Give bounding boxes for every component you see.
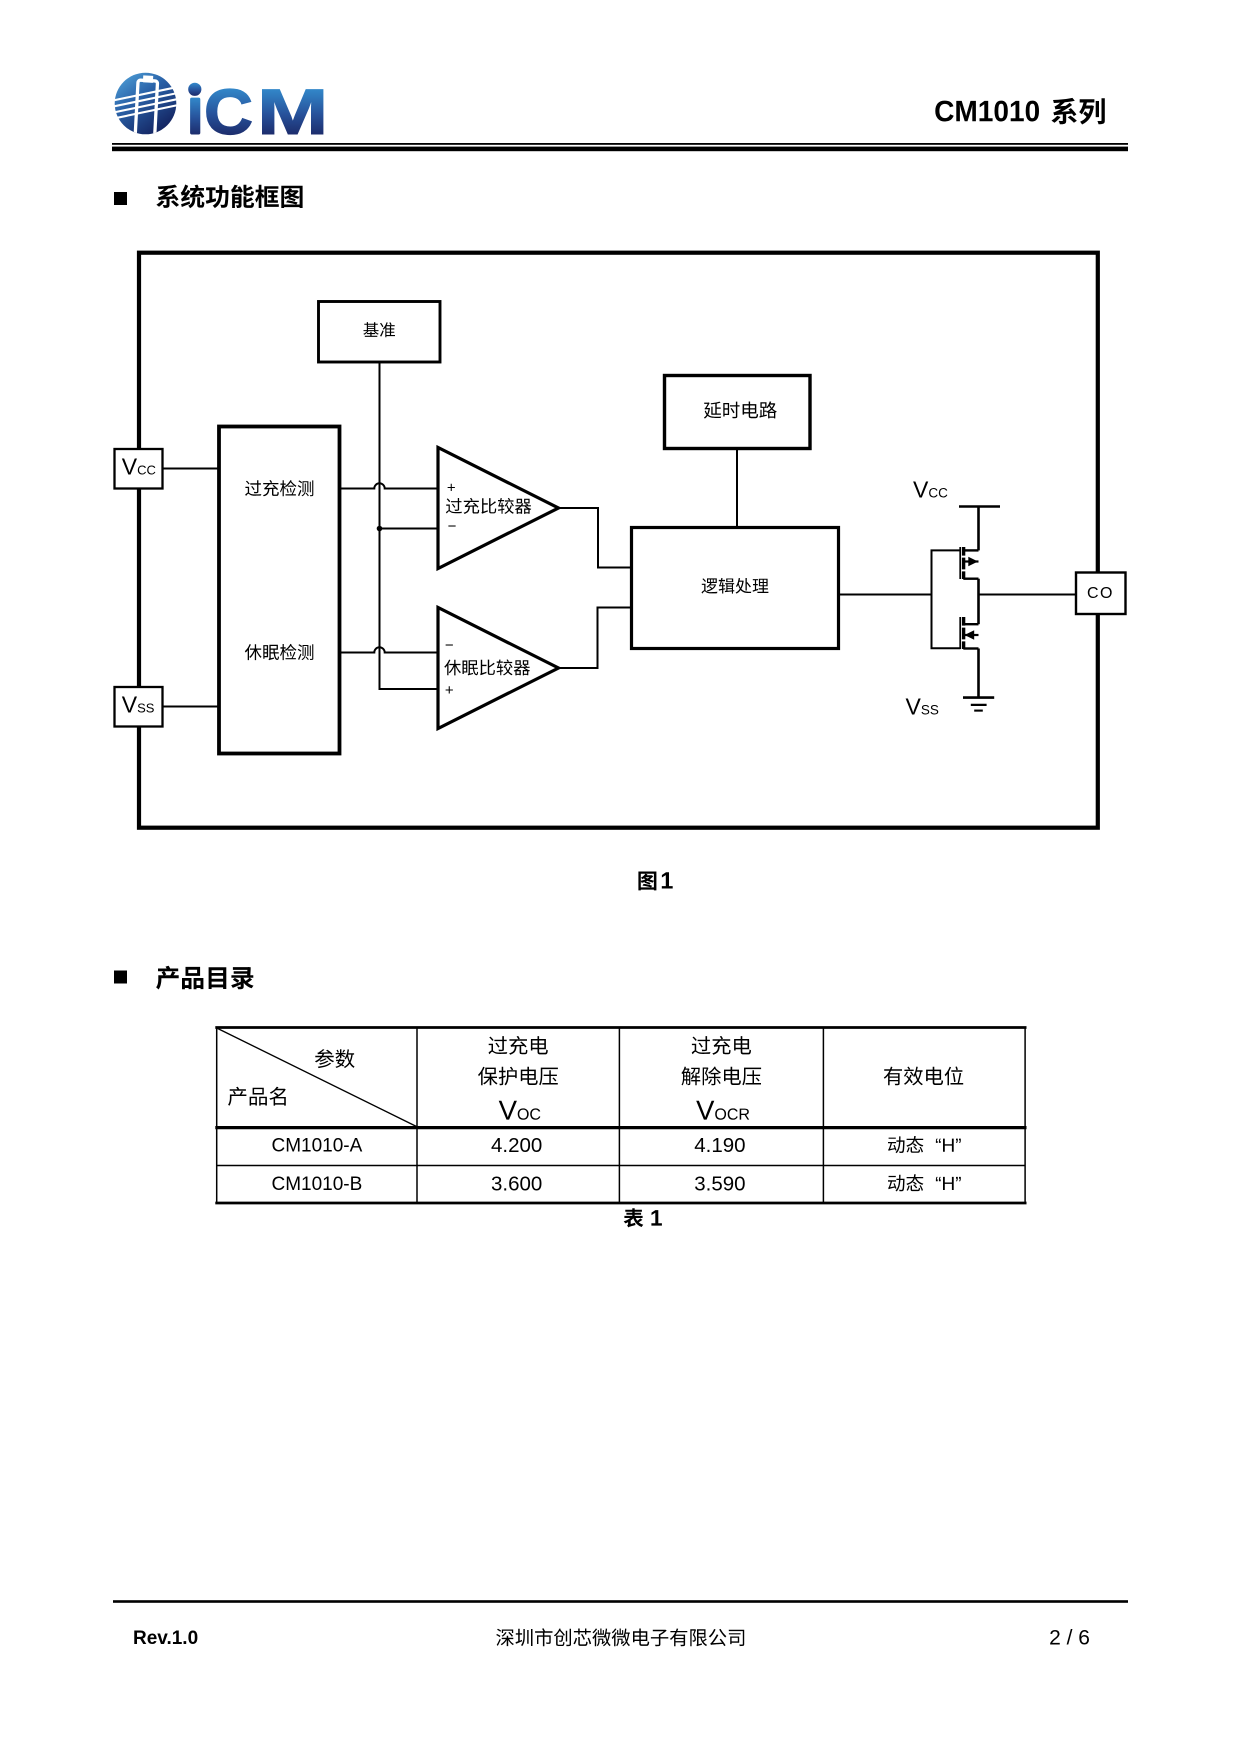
wire reference vertical net bbox=[380, 362, 439, 689]
pin box VCC bbox=[115, 449, 163, 489]
reference box 基准 bbox=[319, 302, 441, 363]
VCC rail bar bbox=[959, 505, 1000, 508]
wire detect to sleep comparator - input (hop) bbox=[340, 647, 439, 652]
wire delay circuit to logic bbox=[736, 449, 738, 528]
table data rows bbox=[271, 1136, 362, 1195]
svg-text:3.590: 3.590 bbox=[694, 1172, 745, 1195]
detect block 过充检测/休眠检测 bbox=[219, 427, 340, 754]
svg-text:3.600: 3.600 bbox=[491, 1172, 542, 1195]
header col3 over-charge release voltage bbox=[692, 1036, 751, 1055]
section title system block diagram bbox=[156, 185, 302, 209]
wire logic output to gate net bbox=[839, 594, 932, 596]
junction node on reference net bbox=[377, 526, 383, 532]
wire overcharge comparator output to logic bbox=[559, 508, 632, 568]
svg-text:4.200: 4.200 bbox=[491, 1134, 542, 1157]
table caption 表 1 bbox=[624, 1208, 644, 1227]
footer rule bbox=[113, 1600, 1128, 1603]
transistor Q2 (NMOS) bbox=[960, 617, 978, 698]
logo iCM globe bbox=[114, 73, 177, 137]
logic box 逻辑处理 bbox=[632, 528, 839, 649]
svg-text:VSS: VSS bbox=[906, 694, 939, 720]
wire sleep comparator output to logic bbox=[559, 608, 632, 669]
header col2 over-charge protect voltage bbox=[489, 1036, 548, 1055]
header double rule bbox=[112, 143, 1128, 145]
svg-text:CM1010-A: CM1010-A bbox=[271, 1136, 362, 1157]
header cell labels 参数/产品名 bbox=[315, 1049, 355, 1068]
svg-text:4.190: 4.190 bbox=[694, 1134, 745, 1157]
gate net wires bbox=[932, 550, 961, 648]
pin box CO bbox=[1076, 573, 1126, 615]
figure caption 图 1 bbox=[638, 872, 656, 891]
footer company name bbox=[496, 1628, 744, 1646]
svg-text:Rev.1.0: Rev.1.0 bbox=[133, 1628, 198, 1649]
wire MOSFET output to CO bbox=[979, 594, 1077, 596]
header title CM1010 series bbox=[935, 101, 1039, 122]
wire reference to overcharge comparator - input bbox=[380, 528, 439, 530]
svg-text:−: − bbox=[445, 637, 454, 654]
svg-text:CO: CO bbox=[1087, 585, 1114, 602]
svg-text:CM1010-B: CM1010-B bbox=[271, 1174, 362, 1195]
svg-text:VCC: VCC bbox=[913, 477, 948, 503]
svg-text:−: − bbox=[448, 518, 457, 535]
section bullet 1 bbox=[114, 192, 127, 205]
svg-text:+: + bbox=[447, 480, 456, 497]
overcharge comparator U1 bbox=[438, 448, 559, 569]
logo iCM letters bbox=[189, 83, 323, 134]
sleep comparator U2 bbox=[438, 608, 559, 729]
section bullet 2 bbox=[114, 971, 127, 984]
svg-text:2 / 6: 2 / 6 bbox=[1049, 1627, 1090, 1650]
delay box 延时电路 bbox=[665, 376, 811, 449]
table grid bbox=[215, 1028, 1026, 1204]
pin box VSS bbox=[115, 687, 163, 727]
transistor Q1 (PMOS) bbox=[960, 507, 978, 625]
ground symbol bbox=[963, 698, 994, 711]
header col4 active level bbox=[884, 1067, 963, 1086]
wire VCC pin to detect block bbox=[162, 468, 219, 470]
wire VSS pin to detect block bbox=[162, 706, 219, 708]
svg-text:+: + bbox=[445, 682, 454, 699]
section title product catalog bbox=[156, 966, 254, 990]
outer boundary box bbox=[139, 253, 1098, 828]
table header diagonal bbox=[217, 1028, 417, 1127]
wire detect to overcharge comparator + input (hop) bbox=[340, 483, 439, 488]
